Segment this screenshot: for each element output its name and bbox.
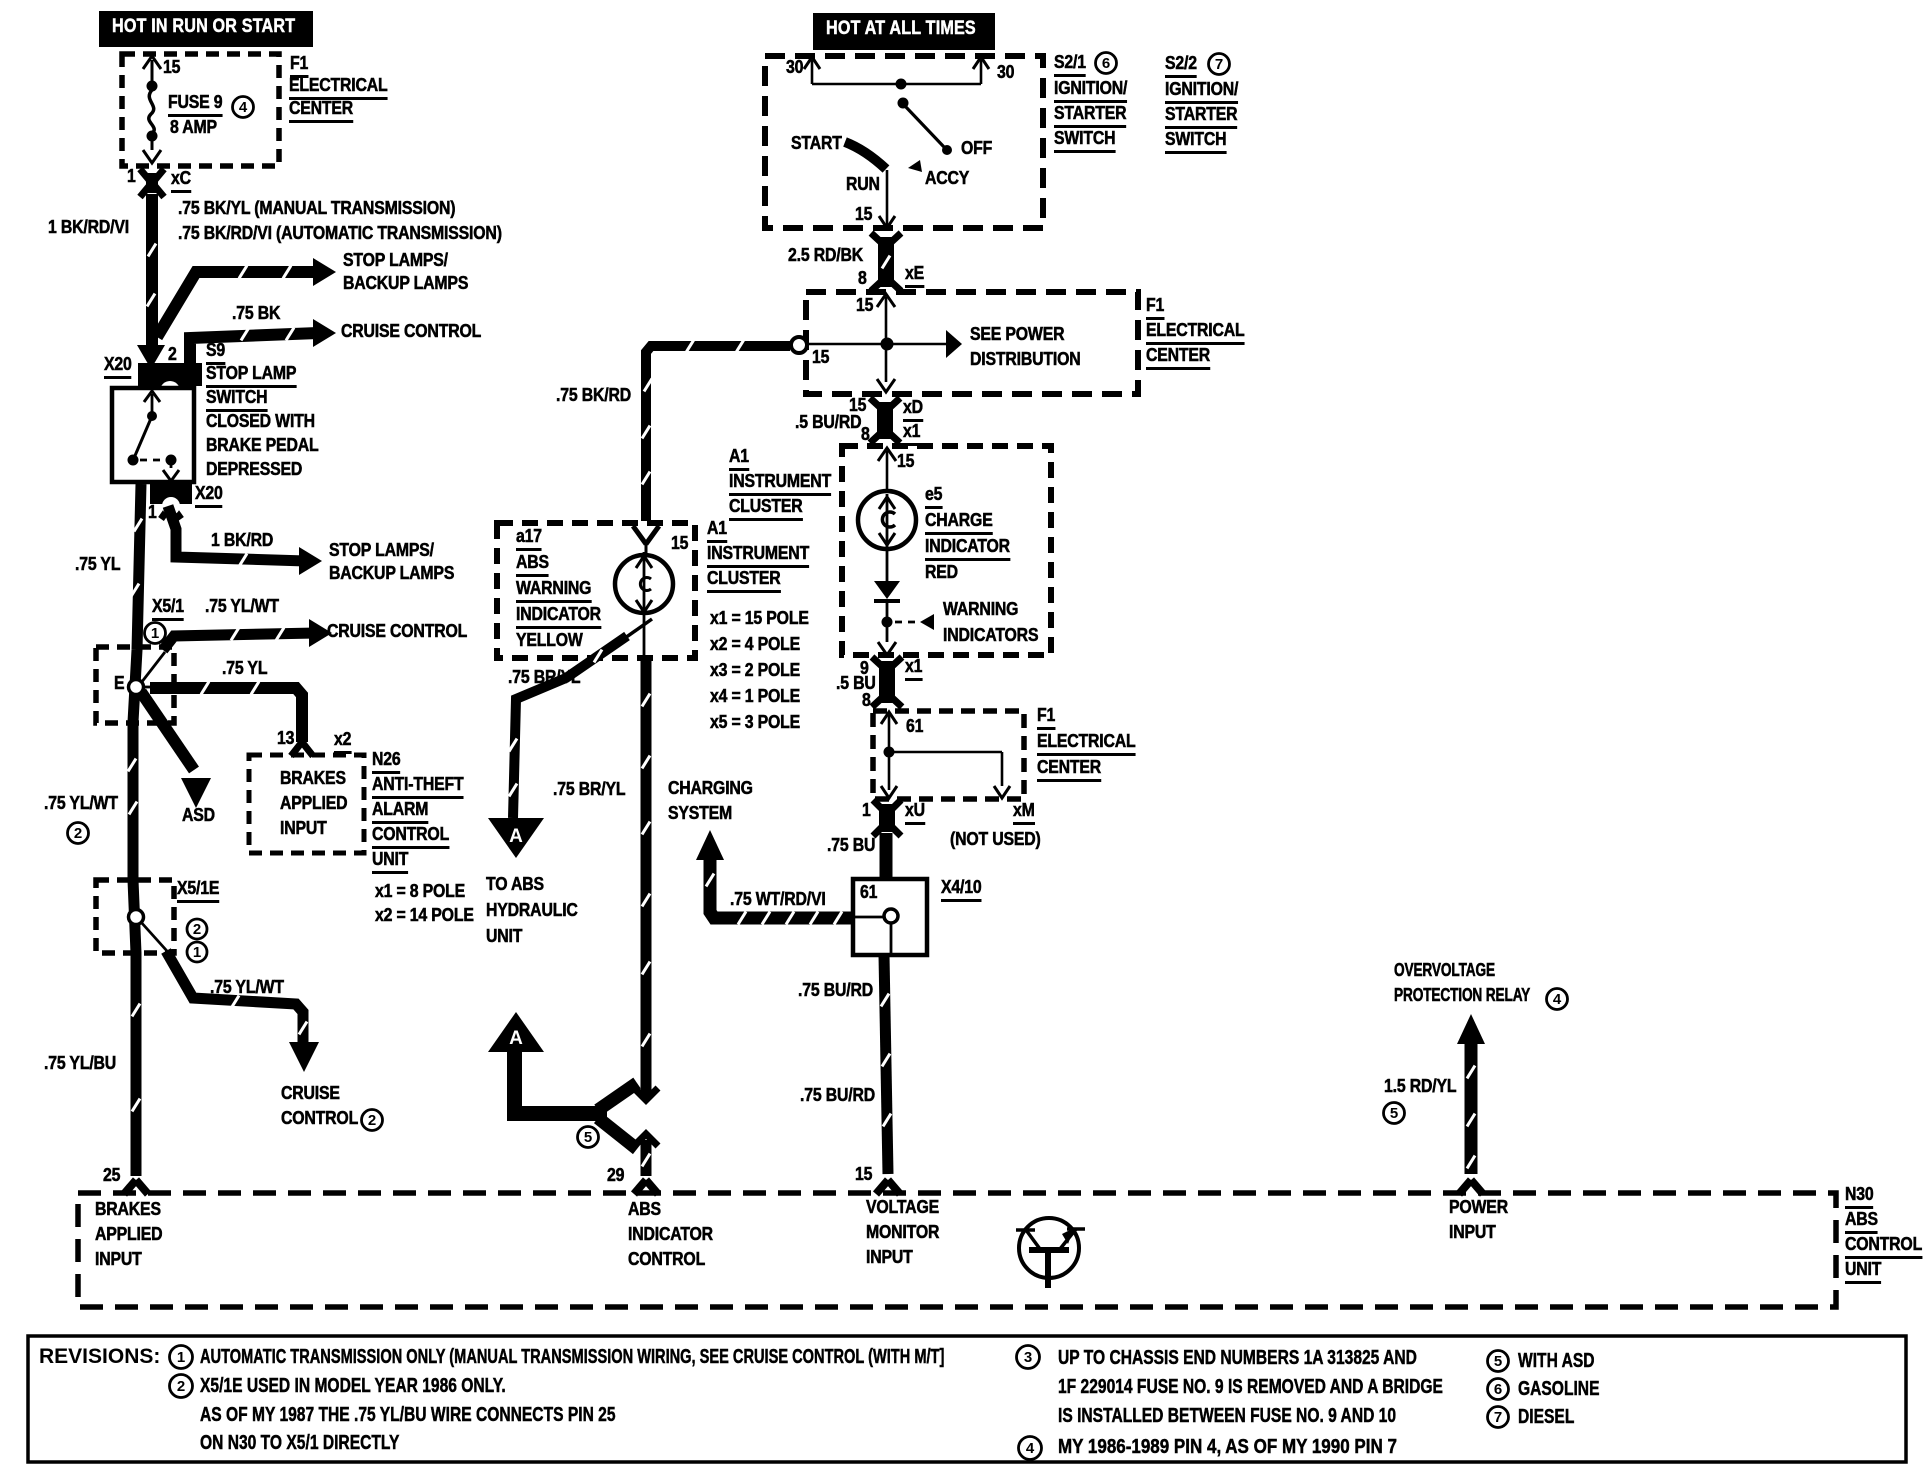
slash marks: [231, 996, 239, 1009]
connector X20 lower: [150, 482, 192, 504]
label a17: [516, 527, 542, 551]
label INPUT: [1449, 1223, 1496, 1242]
label S2/2: [1165, 54, 1197, 78]
label 8 AMP: [170, 118, 217, 137]
wire .75 BU: [880, 833, 893, 879]
svg-text:6: 6: [1494, 1381, 1502, 1398]
svg-text:6: 6: [1102, 55, 1110, 72]
label UNIT: [1845, 1260, 1881, 1284]
label INSTRUMENT: [707, 544, 809, 568]
label WARNING: [943, 600, 1018, 619]
label IGNITION/: [1165, 80, 1238, 104]
label X20: [195, 484, 223, 508]
label 9: [860, 659, 869, 678]
label xM: [1013, 801, 1035, 825]
X4/10 node: [853, 916, 884, 919]
svg-text:1: 1: [151, 625, 159, 642]
label .75 BK/RD/VI (AUTOMATIC TRANSMISSION): [178, 224, 502, 243]
label X5/1E USED IN MODEL YEAR 1986 ONLY.: [200, 1376, 506, 1396]
label 1: [862, 801, 871, 820]
label CENTER: [289, 99, 353, 123]
slash marks: [148, 244, 156, 257]
label (NOT USED): [950, 830, 1041, 849]
label CRUISE CONTROL: [341, 322, 481, 341]
label STOP LAMP: [206, 364, 296, 388]
label INDICATOR: [628, 1225, 713, 1244]
slash marks: [738, 912, 746, 925]
svg-text:1: 1: [193, 944, 201, 961]
svg-text:2: 2: [193, 921, 201, 938]
circled 4 (fuse note): [233, 97, 254, 118]
circled 1 (revision): [170, 1346, 193, 1369]
circled 7 (S2/2): [1209, 54, 1230, 75]
label BACKUP LAMPS: [329, 564, 454, 583]
switch S9 contacts: [144, 391, 160, 402]
label HYDRAULIC: [486, 901, 578, 920]
label CHARGE: [925, 511, 993, 535]
connector xE: [878, 237, 894, 287]
label TO ABS: [486, 875, 544, 894]
label SYSTEM: [668, 804, 732, 823]
circled 6 (S2/1): [1096, 53, 1117, 74]
slash marks: [201, 682, 209, 695]
charge indicator internals: [878, 448, 896, 461]
label ELECTRICAL: [1037, 732, 1136, 756]
slash marks: [882, 256, 890, 269]
label .75 WT/RD/VI: [730, 890, 826, 909]
label MY 1986-1989 PIN 4, AS OF MY 1990 PIN 7: [1058, 1437, 1397, 1457]
label 15: [849, 396, 866, 415]
label 13: [277, 729, 294, 748]
61 internal wiring: [881, 712, 897, 724]
svg-text:5: 5: [584, 1129, 592, 1146]
svg-text:7: 7: [1215, 56, 1223, 73]
label xD: [903, 398, 923, 422]
label .75 BU: [827, 836, 875, 855]
circled 6 (revision): [1488, 1379, 1509, 1400]
label WITH ASD: [1518, 1351, 1595, 1371]
label BRAKES: [95, 1200, 161, 1219]
svg-text:4: 4: [1026, 1440, 1035, 1457]
label .75 BK: [232, 304, 280, 323]
wire .75 YL/WT to cruise control: [163, 633, 316, 650]
slash marks: [241, 328, 249, 341]
label .5 BU: [836, 674, 876, 693]
label UNIT: [372, 850, 408, 874]
circled 4 (revision): [1019, 1437, 1042, 1460]
label IS INSTALLED BETWEEN FUSE NO. 9 AND 10: [1058, 1406, 1396, 1426]
label ANTI-THEFT: [372, 775, 464, 799]
wire 1 BK/RD to stop lamps: [168, 506, 306, 561]
label SWITCH: [1165, 130, 1226, 154]
label 30: [997, 63, 1014, 82]
label xE: [905, 264, 924, 288]
node E thin branches: [141, 652, 165, 683]
wire .75 BR/YL to ABS hydraulic unit: [625, 619, 652, 638]
connector xU: [879, 804, 895, 832]
label INDICATOR: [925, 537, 1010, 561]
connector circle at F1 edge: [791, 337, 807, 353]
circled 2 (revision): [170, 1375, 193, 1398]
label .75 BU/RD: [798, 981, 873, 1000]
label 2.5 RD/BK: [788, 246, 863, 265]
label 1: [127, 167, 136, 186]
svg-text:2: 2: [368, 1112, 376, 1129]
slash marks: [239, 266, 247, 279]
wire branch to stop/backup lamps: [157, 272, 318, 337]
arrow A to ABS hydraulic unit: [488, 818, 544, 858]
label STOP LAMPS/: [329, 541, 434, 560]
circled 4 (overvoltage): [1547, 989, 1568, 1010]
label ELECTRICAL: [1146, 321, 1245, 345]
label 1: [148, 503, 157, 522]
label F1: [1146, 296, 1164, 320]
label .75 YL/BU: [44, 1054, 116, 1073]
label F1: [290, 54, 308, 78]
label SWITCH: [206, 388, 267, 412]
label WARNING: [516, 579, 591, 603]
connector xC pin 1: [146, 173, 158, 193]
label xC: [171, 169, 191, 193]
label F1: [1037, 706, 1055, 730]
wire .75 BK/RD a17 to pin 29: [641, 658, 652, 1098]
label A1: [707, 519, 727, 543]
svg-text:2: 2: [177, 1378, 185, 1395]
label ALARM: [372, 800, 428, 824]
label 1F 229014 FUSE NO. 9 IS REMOVED AND A BRIDGE: [1058, 1377, 1443, 1397]
label 8: [858, 269, 867, 288]
label HOT AT ALL TIMES: [826, 19, 976, 38]
circled 3 (revision): [1017, 1346, 1040, 1369]
label MONITOR: [866, 1223, 939, 1242]
label A1: [729, 447, 749, 471]
label .75 BK/YL (MANUAL TRANSMISSION): [178, 199, 455, 218]
wire .75 BU/RD to pin 15: [884, 955, 888, 1174]
label STARTER: [1054, 104, 1126, 128]
label CENTER: [1146, 346, 1210, 370]
wire .75 YL/WT to cruise control (lower): [166, 951, 303, 1042]
label START: [791, 134, 842, 153]
F1 electrical center (dashed box): [806, 292, 1138, 394]
label INPUT: [280, 819, 327, 838]
label INPUT: [95, 1250, 142, 1269]
slash marks: [686, 340, 694, 353]
label .75 YL/WT: [205, 597, 279, 616]
wire to ASD: [141, 692, 194, 770]
label AUTOMATIC TRANSMISSION ONLY (MANUAL TRANSMISSION WIRING, SEE CRUISE CONTROL (WITH M/T]: [200, 1347, 944, 1367]
F1 electrical center 61 (dashed box): [873, 711, 1024, 799]
label REVISIONS:: [39, 1346, 160, 1367]
transistor symbol: [1019, 1218, 1079, 1278]
ignition switch internals: [804, 57, 820, 69]
label HOT IN RUN OR START: [112, 17, 295, 36]
label .75 YL/WT: [210, 978, 284, 997]
label IGNITION/: [1054, 79, 1127, 103]
label APPLIED: [95, 1225, 162, 1244]
label 29: [607, 1166, 624, 1185]
label N26: [372, 750, 401, 774]
label x1: [903, 422, 920, 446]
label ABS: [516, 553, 549, 577]
label CONTROL: [281, 1109, 358, 1128]
label 15: [163, 58, 180, 77]
fuse F9 wire with terminals: [143, 56, 161, 69]
label 15: [855, 205, 872, 224]
svg-text:4: 4: [1553, 991, 1562, 1008]
label x4 = 1 POLE: [710, 687, 800, 706]
label UP TO CHASSIS END NUMBERS 1A 313825 AND: [1058, 1348, 1417, 1368]
node X5/1E thin branch: [140, 921, 167, 951]
label OFF: [961, 139, 992, 158]
label 61: [860, 883, 877, 902]
svg-text:3: 3: [1024, 1349, 1032, 1366]
junction X5/1E (dashed box): [96, 880, 174, 953]
slash marks: [642, 694, 650, 707]
label CLUSTER: [707, 569, 781, 593]
label x2 = 4 POLE: [710, 635, 800, 654]
label STOP LAMPS/: [343, 251, 448, 270]
label 15: [855, 1165, 872, 1184]
svg-text:2: 2: [74, 825, 82, 842]
connector X20 upper: [138, 363, 202, 386]
circled 5 (ASD join): [578, 1127, 599, 1148]
label 2: [168, 345, 177, 364]
label AS OF MY 1987 THE .75 YL/BU WIRE CONNECTS PIN 25: [200, 1405, 616, 1425]
label VOLTAGE: [866, 1198, 939, 1217]
label x2: [334, 730, 351, 754]
label x2 = 14 POLE: [375, 906, 474, 925]
switch S9 stop lamp switch box: [112, 388, 194, 482]
power label box HOT IN RUN OR START: [99, 11, 313, 47]
circled 7 (revision): [1488, 1407, 1509, 1428]
label x1 = 15 POLE: [710, 609, 809, 628]
circled 1 (X5/1): [145, 623, 166, 644]
label X5/1: [152, 597, 184, 621]
circled 1 (X5/1E): [187, 942, 207, 962]
label CRUISE CONTROL: [327, 622, 467, 641]
label 8: [861, 425, 870, 444]
wire .75 BK to cruise control: [190, 333, 318, 368]
svg-text:5: 5: [1390, 1105, 1398, 1122]
label SEE POWER: [970, 325, 1064, 344]
svg-text:A: A: [509, 1028, 523, 1049]
circled 5 (revision): [1488, 1351, 1509, 1372]
label e5: [925, 485, 942, 509]
label YELLOW: [516, 631, 583, 650]
slash marks: [1467, 1066, 1475, 1079]
label 15: [897, 452, 914, 471]
label INDICATOR: [516, 605, 601, 629]
lamp a17 (bulb): [615, 555, 673, 613]
label 8: [862, 691, 871, 710]
label x1: [905, 657, 922, 681]
node X5/1E: [129, 910, 144, 925]
label 15: [812, 348, 829, 367]
label S9: [206, 341, 225, 365]
fuse box F1 (dashed): [122, 54, 279, 166]
label 15: [856, 296, 873, 315]
label X5/1E: [177, 879, 219, 903]
label .75 BR/YL: [553, 780, 625, 799]
a17 ABS warning indicator (dashed box): [497, 523, 695, 658]
label .75 YL: [75, 555, 120, 574]
circled 2 (X5/1E): [187, 919, 207, 939]
label INPUT: [866, 1248, 913, 1267]
charge indicator e5 (dashed box): [842, 446, 1051, 655]
label CRUISE: [281, 1084, 340, 1103]
label APPLIED: [280, 794, 347, 813]
label ELECTRICAL: [289, 76, 388, 100]
label E: [114, 674, 124, 693]
svg-text:5: 5: [1494, 1353, 1502, 1370]
label CHARGING: [668, 779, 753, 798]
label POWER: [1449, 1198, 1508, 1217]
wire .75 BK/RD from F1 to a17: [646, 346, 790, 521]
svg-text:7: 7: [1494, 1409, 1502, 1426]
label ASD: [182, 806, 215, 825]
label 1 BK/RD: [211, 531, 273, 550]
label INSTRUMENT: [729, 472, 831, 496]
power label box HOT AT ALL TIMES: [813, 13, 995, 50]
label CLOSED WITH: [206, 412, 315, 431]
node E: [129, 680, 144, 695]
N26 brakes applied input (dashed box): [249, 755, 364, 853]
label CENTER: [1037, 758, 1101, 782]
label ABS: [628, 1200, 661, 1219]
slash marks: [594, 650, 602, 663]
label DIESEL: [1518, 1407, 1574, 1427]
label x3 = 2 POLE: [710, 661, 800, 680]
label .75 BK/RD: [556, 386, 631, 405]
label CONTROL: [1845, 1235, 1922, 1259]
svg-text:1: 1: [177, 1349, 185, 1366]
label x1 = 8 POLE: [375, 882, 465, 901]
label DEPRESSED: [206, 460, 302, 479]
wire .75 WT/RD/VI to charging system: [710, 856, 851, 918]
label BRAKE PEDAL: [206, 436, 318, 455]
slash marks: [231, 628, 239, 641]
F1 internal bus: [877, 294, 895, 307]
connector x1 (9/8): [879, 661, 895, 703]
label 1.5 RD/YL: [1384, 1077, 1456, 1096]
wire 1 BK/RD/VI from fuse to X20: [146, 194, 158, 350]
label STARTER: [1165, 105, 1237, 129]
label X20: [104, 355, 132, 379]
label N30: [1845, 1185, 1874, 1209]
label .5 BU/RD: [795, 413, 861, 432]
svg-text:A: A: [509, 826, 523, 847]
label x5 = 3 POLE: [710, 713, 800, 732]
wire .75 YL main down-left: [133, 484, 141, 1176]
circled 2 (cruise lower): [362, 1110, 383, 1131]
node 61: [884, 909, 898, 923]
label BRAKES: [280, 769, 346, 788]
slash marks: [881, 994, 889, 1007]
slash marks: [134, 519, 142, 532]
label ON N30 TO X5/1 DIRECTLY: [200, 1433, 399, 1453]
label CONTROL: [628, 1250, 705, 1269]
label GASOLINE: [1518, 1379, 1599, 1399]
label X4/10: [941, 878, 982, 902]
junction E (dashed box): [96, 647, 174, 723]
label PROTECTION RELAY: [1394, 986, 1530, 1005]
circled 5 (overvoltage note): [1384, 1103, 1405, 1124]
label .75 BU/RD: [800, 1086, 875, 1105]
label xU: [905, 801, 925, 825]
wire 1.5 RD/YL to overvoltage relay: [1457, 1014, 1485, 1044]
label RUN: [846, 175, 880, 194]
label DISTRIBUTION: [970, 350, 1081, 369]
ignition starter switch S2 (dashed box): [765, 56, 1043, 228]
label 15: [671, 534, 688, 553]
label UNIT: [486, 927, 522, 946]
label .75 YL: [222, 659, 267, 678]
label 30: [786, 58, 803, 77]
label CONTROL: [372, 825, 449, 849]
revisions box: [28, 1336, 1906, 1462]
label S2/1: [1054, 53, 1086, 77]
label SWITCH: [1054, 129, 1115, 153]
label BACKUP LAMPS: [343, 274, 468, 293]
label .75 BR/YL: [508, 668, 580, 687]
N30 ABS control unit (dashed box): [78, 1193, 1836, 1307]
wire .75 YL to N26 pin 13: [150, 688, 302, 742]
circled 2 (left): [68, 823, 89, 844]
label ACCY: [925, 169, 969, 188]
arrow A from ABS (with ASD): [488, 1012, 544, 1052]
label CLUSTER: [729, 497, 803, 521]
label OVERVOLTAGE: [1394, 961, 1495, 980]
label RED: [925, 563, 958, 582]
junction X4/10 (box): [853, 879, 927, 955]
label INDICATORS: [943, 626, 1038, 645]
svg-text:4: 4: [239, 99, 248, 116]
label ABS: [1845, 1210, 1878, 1234]
label FUSE 9: [168, 93, 222, 117]
slash marks: [239, 554, 247, 567]
label 1 BK/RD/VI: [48, 218, 129, 237]
label 61: [906, 717, 923, 736]
connector xD/x1: [877, 402, 893, 439]
label 25: [103, 1166, 120, 1185]
label .75 YL/WT: [44, 794, 118, 813]
